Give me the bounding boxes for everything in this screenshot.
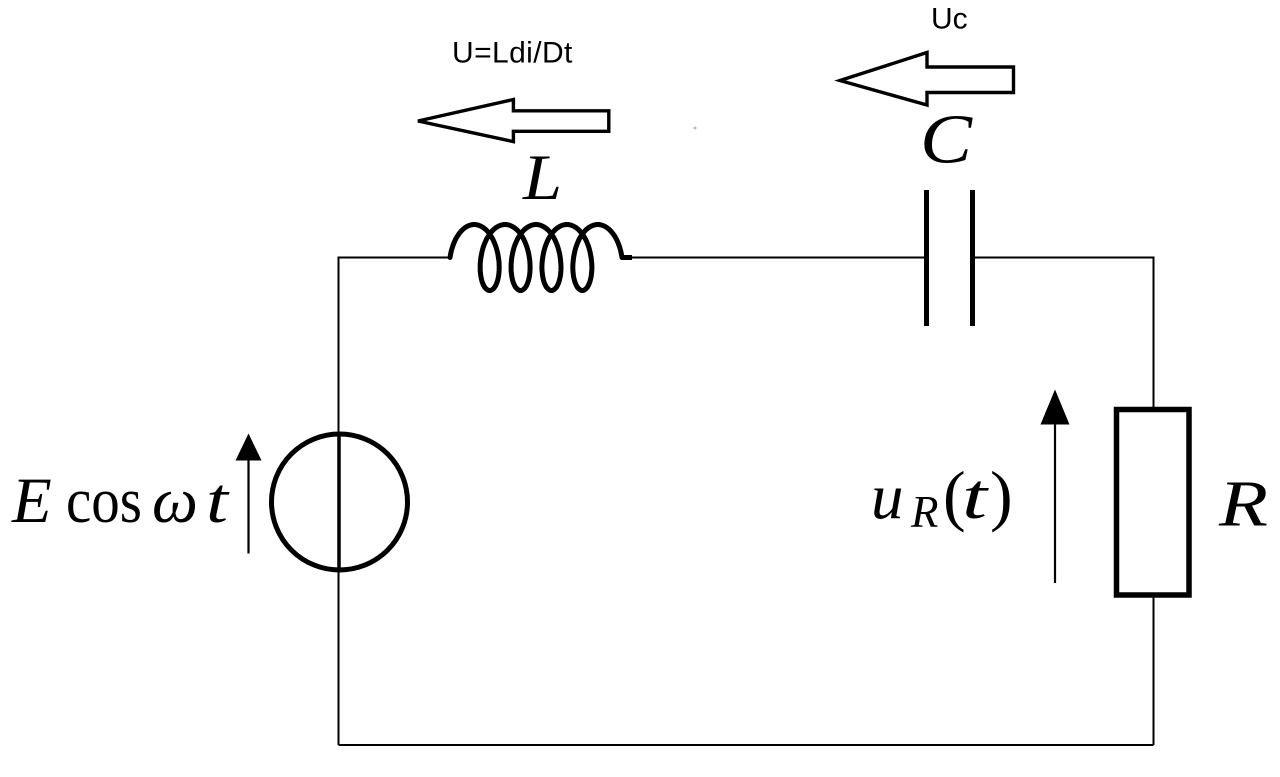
capacitor C left plate bbox=[924, 190, 929, 326]
arrow E source (up) shaft bbox=[247, 458, 249, 554]
svg-text:ω: ω bbox=[152, 465, 198, 537]
svg-text:cos: cos bbox=[66, 465, 142, 537]
arrow uR (up) shaft bbox=[1054, 422, 1056, 583]
svg-text:U=Ldi/Dt: U=Ldi/Dt bbox=[452, 37, 573, 70]
arrow E source head bbox=[236, 434, 262, 461]
svg-text:t: t bbox=[206, 465, 230, 537]
wire top-left horizontal bbox=[339, 257, 451, 259]
svg-text:): ) bbox=[990, 457, 1013, 533]
inductor right stub bbox=[621, 255, 632, 260]
block arrow above L bbox=[418, 100, 609, 142]
wire top middle bbox=[630, 257, 927, 259]
arrow uR head bbox=[1041, 390, 1070, 425]
resistor R box bbox=[1117, 410, 1190, 596]
svg-text:R: R bbox=[910, 487, 939, 537]
svg-text:L: L bbox=[522, 142, 562, 214]
svg-text:R: R bbox=[1218, 468, 1268, 541]
capacitor C right plate bbox=[970, 190, 975, 326]
wire bottom horizontal bbox=[339, 744, 1154, 746]
inductor L coil bbox=[450, 225, 622, 291]
source V1 diameter line bbox=[337, 435, 341, 570]
source V1 circle bbox=[272, 434, 408, 570]
svg-text:C: C bbox=[920, 102, 973, 179]
speck bbox=[694, 127, 697, 130]
svg-text:t: t bbox=[962, 461, 990, 533]
wire left vertical bbox=[338, 257, 340, 746]
wire top right bbox=[973, 257, 1154, 259]
svg-text:Uc: Uc bbox=[931, 3, 968, 36]
svg-text:E: E bbox=[11, 465, 52, 537]
wire right vertical bbox=[1153, 257, 1155, 746]
svg-text:u: u bbox=[871, 461, 904, 533]
block arrow above C (Uc) bbox=[840, 53, 1014, 106]
